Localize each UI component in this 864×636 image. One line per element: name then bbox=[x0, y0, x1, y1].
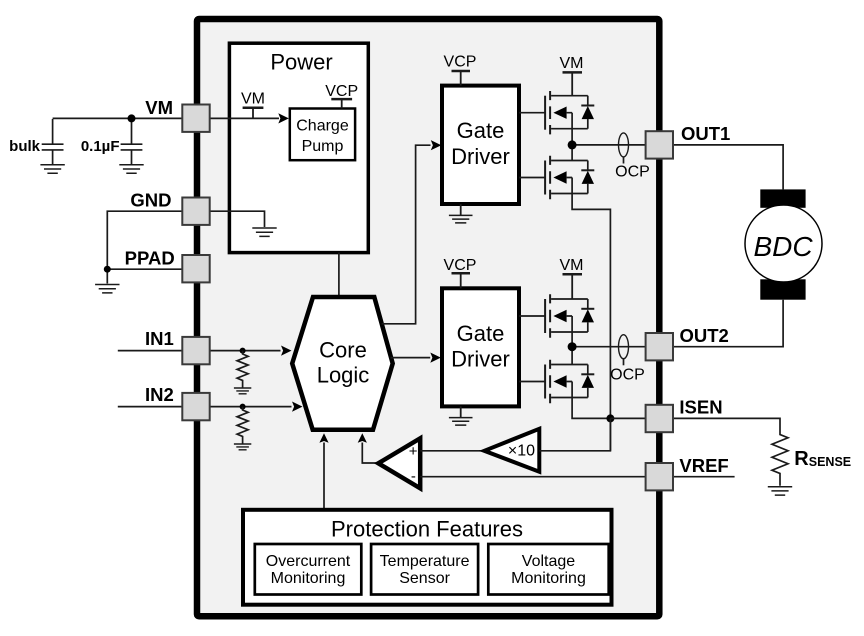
svg-text:Core: Core bbox=[319, 338, 367, 363]
svg-text:BDC: BDC bbox=[753, 231, 813, 262]
svg-text:Monitoring: Monitoring bbox=[511, 570, 586, 587]
svg-text:VCP: VCP bbox=[444, 54, 477, 71]
svg-text:VM: VM bbox=[560, 257, 584, 274]
svg-text:OUT2: OUT2 bbox=[680, 325, 729, 346]
svg-text:VM: VM bbox=[560, 55, 584, 72]
svg-text:Voltage: Voltage bbox=[522, 553, 575, 570]
svg-text:Temperature: Temperature bbox=[380, 553, 470, 570]
svg-text:OUT1: OUT1 bbox=[681, 123, 730, 144]
svg-text:×10: ×10 bbox=[508, 442, 535, 459]
svg-text:VCP: VCP bbox=[444, 257, 477, 274]
svg-text:Protection Features: Protection Features bbox=[331, 517, 523, 542]
svg-text:Driver: Driver bbox=[451, 144, 510, 169]
svg-text:Driver: Driver bbox=[451, 347, 510, 372]
svg-text:IN1: IN1 bbox=[145, 328, 174, 349]
svg-text:Power: Power bbox=[270, 50, 332, 75]
svg-text:IN2: IN2 bbox=[145, 384, 174, 405]
svg-text:OCP: OCP bbox=[610, 367, 645, 384]
svg-text:Gate: Gate bbox=[457, 321, 505, 346]
svg-text:VCP: VCP bbox=[325, 83, 358, 100]
svg-text:VM: VM bbox=[145, 97, 173, 118]
svg-text:Sensor: Sensor bbox=[399, 570, 450, 587]
svg-text:Gate: Gate bbox=[457, 118, 505, 143]
svg-text:+: + bbox=[409, 443, 418, 460]
svg-text:bulk: bulk bbox=[9, 138, 40, 155]
svg-text:GND: GND bbox=[130, 190, 171, 211]
svg-text:Logic: Logic bbox=[317, 363, 370, 388]
svg-text:VM: VM bbox=[241, 91, 265, 108]
svg-text:Monitoring: Monitoring bbox=[271, 570, 346, 587]
svg-text:RSENSE: RSENSE bbox=[794, 448, 851, 470]
svg-text:Pump: Pump bbox=[302, 138, 344, 155]
svg-text:PPAD: PPAD bbox=[125, 248, 175, 269]
svg-text:-: - bbox=[411, 468, 416, 485]
svg-text:Charge: Charge bbox=[296, 118, 349, 135]
svg-text:VREF: VREF bbox=[679, 455, 728, 476]
svg-text:0.1µF: 0.1µF bbox=[81, 138, 120, 155]
svg-text:ISEN: ISEN bbox=[679, 397, 722, 418]
svg-text:OCP: OCP bbox=[615, 164, 650, 181]
svg-text:Overcurrent: Overcurrent bbox=[266, 553, 351, 570]
